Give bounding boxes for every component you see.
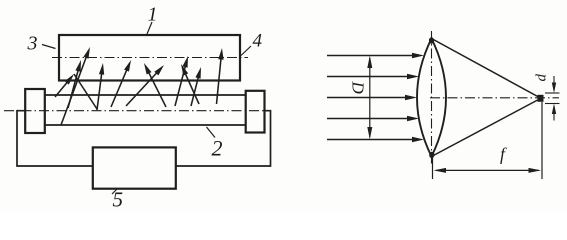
incoming ray 5 xyxy=(327,139,417,141)
f dimension line xyxy=(436,169,539,171)
leader line for label 1 xyxy=(147,22,152,34)
power supply box 5 xyxy=(93,147,176,188)
spot size d extension ticks xyxy=(545,76,560,121)
wire from left cap to supply xyxy=(17,111,93,166)
leader line for label 2 xyxy=(207,127,216,138)
incoming ray 2 xyxy=(327,76,412,78)
pump ray arrow a1 xyxy=(55,79,70,97)
lens bottom vertex ink blob xyxy=(429,152,434,158)
incoming ray 4 xyxy=(327,118,412,120)
svg-text:4: 4 xyxy=(253,31,263,52)
return ray r1 xyxy=(74,74,97,109)
leader tick for label 5 xyxy=(112,189,117,194)
pump ray arrow a8 xyxy=(175,62,186,106)
tube 2 bottom wall xyxy=(45,124,246,126)
pump ray arrow a3 xyxy=(68,66,79,108)
pump ray arrow a9 xyxy=(191,73,199,106)
lens vertical axis (dash-dot) xyxy=(431,31,433,164)
svg-text:1: 1 xyxy=(148,4,158,26)
extension line below focus xyxy=(541,102,543,179)
incoming ray 3 xyxy=(327,97,410,99)
mirror box (element 1/3/4) xyxy=(59,35,240,81)
extension line below lens xyxy=(432,158,434,179)
converging ray from lens bottom to focus xyxy=(432,99,540,157)
wire from right cap to supply xyxy=(176,111,271,166)
focal length dimension f xyxy=(433,102,543,179)
tube 2 top wall xyxy=(45,94,246,96)
pump ray arrow b2 up-left xyxy=(184,70,199,104)
svg-text:2: 2 xyxy=(212,136,223,161)
leader line for label 4 xyxy=(241,46,251,56)
pump ray arrow b1 up-left xyxy=(147,69,166,107)
focal spot xyxy=(538,95,544,102)
svg-text:D: D xyxy=(349,81,368,95)
upper optical axis (dash-dot) xyxy=(52,57,248,59)
leader line for label 3 xyxy=(42,45,56,49)
optical axis to focus (dash-dot) xyxy=(430,97,559,99)
pump ray arrow a2 xyxy=(61,53,88,125)
d upper arrow xyxy=(553,76,555,90)
pump light arrows inside tube/mirror box xyxy=(55,47,224,125)
beam diameter dimension D line xyxy=(367,56,372,140)
svg-text:5: 5 xyxy=(113,188,124,212)
svg-text:d: d xyxy=(534,74,550,82)
converging ray from lens top to focus xyxy=(432,39,540,98)
tube axis (dash-dot) xyxy=(4,110,271,112)
left electrode cap xyxy=(25,89,45,133)
lens top vertex ink blob xyxy=(429,37,434,43)
incoming ray 1 xyxy=(327,55,417,57)
d lower arrow xyxy=(553,107,555,121)
svg-text:f: f xyxy=(500,144,507,164)
pump ray arrow a4 xyxy=(97,69,102,110)
pump ray arrow a5 xyxy=(111,66,129,107)
right electrode cap xyxy=(246,91,265,133)
svg-text:3: 3 xyxy=(27,33,38,55)
pump ray arrow a10 xyxy=(217,54,222,104)
pump ray arrow a6 xyxy=(126,70,160,106)
lens outline xyxy=(417,39,446,157)
